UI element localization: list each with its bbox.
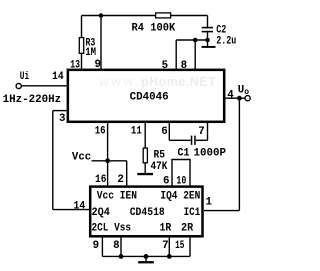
svg-text:8: 8 bbox=[113, 240, 119, 252]
wire pin 7 riser bbox=[207, 123, 209, 140]
resistor R3 bbox=[79, 38, 83, 54]
wire pin 3 stub bbox=[53, 110, 67, 112]
svg-text:3: 3 bbox=[59, 113, 65, 125]
svg-text:CD4518: CD4518 bbox=[130, 207, 165, 219]
wire R5 ground stub bbox=[144, 163, 146, 173]
wire C2 ground stub bbox=[207, 40, 209, 46]
wire pin 4 stub to Uo bbox=[226, 97, 246, 99]
wire pin 5 riser bbox=[175, 40, 177, 69]
svg-text:8: 8 bbox=[181, 60, 187, 72]
svg-text:IQ4 2EN: IQ4 2EN bbox=[160, 190, 200, 202]
svg-text:2CL Vss: 2CL Vss bbox=[92, 222, 132, 234]
wire pin 7 drop CD4518 bbox=[168, 238, 170, 257]
wire ground stub bottom bbox=[145, 256, 147, 261]
svg-text:Vcc IEN: Vcc IEN bbox=[97, 190, 137, 202]
capacitor C2 bbox=[202, 27, 213, 29]
svg-text:IC1: IC1 bbox=[184, 207, 201, 219]
wire bracket pins 6-10 CD4518 bbox=[172, 160, 190, 186]
wire pin 2 riser CD4518 bbox=[126, 161, 128, 186]
resistor R4 bbox=[156, 13, 171, 18]
wire pin 16 riser CD4046 to CD4518 bbox=[107, 123, 109, 185]
svg-text:4: 4 bbox=[227, 90, 234, 102]
svg-text:9: 9 bbox=[93, 240, 99, 252]
input terminal Ui bbox=[16, 83, 21, 88]
svg-text:14: 14 bbox=[52, 71, 64, 83]
svg-text:2.2u: 2.2u bbox=[216, 35, 236, 47]
capacitor C1 bbox=[191, 136, 193, 145]
resistor R5 bbox=[143, 148, 147, 163]
svg-text:Vcc: Vcc bbox=[72, 151, 91, 163]
ground under R5 bbox=[137, 173, 153, 175]
svg-text:7: 7 bbox=[162, 240, 168, 252]
node pin8/C2 junction dots bbox=[193, 38, 198, 43]
ground under C2 bbox=[202, 46, 216, 48]
svg-text:R5: R5 bbox=[154, 149, 166, 161]
svg-text:2R: 2R bbox=[181, 222, 194, 234]
svg-text:www.: www. bbox=[98, 75, 141, 89]
wire pin 8 riser bbox=[194, 40, 196, 69]
output terminal Uo pin 4 bbox=[245, 96, 250, 101]
wire C1 to pin 7 bbox=[196, 139, 208, 141]
wire bottom ground bus bbox=[102, 255, 190, 257]
svg-text:1M: 1M bbox=[85, 47, 96, 59]
wire pin 6 lead down bbox=[168, 123, 170, 140]
wire pin 9 riser bbox=[100, 16, 102, 70]
wire C2 top lead bbox=[207, 16, 209, 28]
svg-text:pHome.NET: pHome.NET bbox=[141, 75, 216, 89]
wire to CD4518 pin 1 bbox=[204, 210, 239, 212]
svg-text:15: 15 bbox=[175, 240, 184, 252]
wire Ui input to pin 14 bbox=[22, 85, 67, 87]
svg-text:1000P: 1000P bbox=[194, 148, 227, 160]
wire Vcc feed bbox=[92, 160, 127, 162]
svg-text:6: 6 bbox=[161, 126, 167, 138]
wire C2 bottom lead bbox=[207, 32, 209, 40]
wire pin 9 drop CD4518 bbox=[101, 238, 103, 257]
wire pin 8 drop CD4518 bbox=[120, 238, 122, 257]
svg-text:5: 5 bbox=[162, 60, 168, 72]
svg-text:C1: C1 bbox=[178, 148, 190, 160]
IC CD4518 box bbox=[90, 187, 202, 237]
ground bottom bbox=[138, 261, 154, 263]
wire pin 11 lead to R5 bbox=[144, 123, 146, 148]
node top rail junction bbox=[99, 13, 104, 18]
svg-text:1Hz-220Hz: 1Hz-220Hz bbox=[3, 94, 62, 106]
wire top rail bbox=[82, 15, 208, 17]
svg-text:R4 100K: R4 100K bbox=[132, 22, 176, 34]
svg-text:o: o bbox=[244, 88, 249, 97]
node bottom bus junctions bbox=[119, 254, 124, 259]
svg-text:7: 7 bbox=[198, 126, 204, 138]
svg-text:47K: 47K bbox=[151, 161, 168, 173]
wire pins 5-8 to C2 bbox=[176, 39, 207, 41]
svg-text:16: 16 bbox=[95, 126, 106, 138]
svg-text:9: 9 bbox=[95, 59, 101, 71]
svg-text:14: 14 bbox=[74, 200, 86, 212]
svg-text:11: 11 bbox=[131, 126, 142, 138]
svg-text:2Q4: 2Q4 bbox=[92, 207, 111, 219]
svg-text:CD4046: CD4046 bbox=[130, 92, 169, 104]
svg-text:1: 1 bbox=[206, 197, 213, 209]
wire pin 6 to C1 bbox=[169, 139, 191, 141]
svg-text:16: 16 bbox=[95, 174, 106, 186]
wire R3 bottom riser (pin 13) bbox=[81, 53, 83, 69]
svg-text:2: 2 bbox=[117, 174, 123, 186]
wire pin 15 drop CD4518 bbox=[189, 238, 191, 257]
wire to CD4518 pin 14 bbox=[53, 209, 89, 211]
wire R3 top riser bbox=[81, 16, 83, 39]
op-amp U1 CD4046 IC box bbox=[68, 70, 224, 122]
wire pin 3 down left side bbox=[52, 111, 54, 210]
svg-text:Ui: Ui bbox=[20, 71, 30, 83]
svg-text:13: 13 bbox=[70, 59, 80, 71]
svg-text:1R: 1R bbox=[160, 222, 172, 234]
wire pin 4 down right side bbox=[238, 98, 240, 210]
node Vcc junction bbox=[105, 158, 110, 163]
